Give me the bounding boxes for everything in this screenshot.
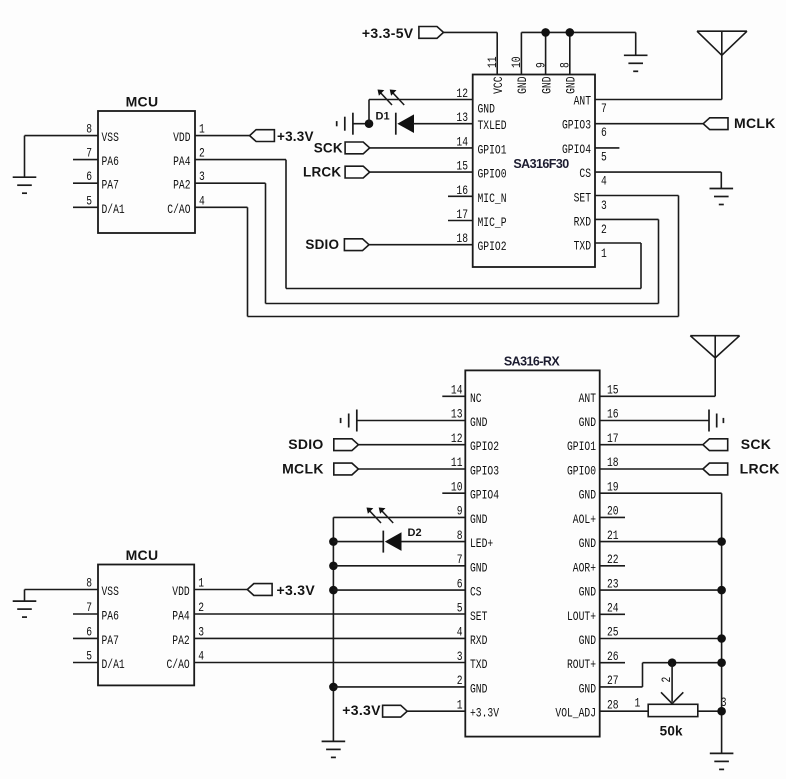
U1 pin 5 D/A1 xyxy=(86,193,125,217)
wire U2 GPIO3 pin 6 to MCLK xyxy=(595,123,703,125)
ground at U2 CS xyxy=(710,189,734,205)
svg-text:SDIO: SDIO xyxy=(288,436,323,452)
U4 pin 8 LED+ xyxy=(457,528,494,551)
svg-text:GPIO1: GPIO1 xyxy=(567,439,596,454)
svg-text:GPIO3: GPIO3 xyxy=(562,118,591,133)
svg-text:CS: CS xyxy=(579,166,591,181)
net label LRCK (bottom) xyxy=(703,461,780,477)
svg-text:SCK: SCK xyxy=(314,140,343,155)
junction left bus at CS pin 6 xyxy=(329,586,338,595)
U4 pin 2 GND xyxy=(457,673,488,696)
U4 pin 25 GND xyxy=(579,625,619,648)
U2 pin 5 GPIO4 xyxy=(562,142,607,165)
U4 pin 28 VOL_ADJ xyxy=(555,697,618,720)
svg-text:NC: NC xyxy=(470,391,482,406)
svg-text:AOL+: AOL+ xyxy=(573,512,596,527)
svg-text:GND: GND xyxy=(579,536,597,551)
svg-text:PA6: PA6 xyxy=(102,154,119,169)
antenna E2 xyxy=(690,336,739,358)
U1 pin 4 C/AO xyxy=(167,193,205,217)
U1 pin 5 stub wire xyxy=(73,206,98,208)
net label SDIO (top) xyxy=(305,237,369,252)
U4 pin 15 ANT xyxy=(579,383,619,406)
svg-text:27: 27 xyxy=(607,673,619,688)
junction on GND bus at pin 8 xyxy=(566,28,575,37)
wire U4 GPIO1 pin 17 to SCK xyxy=(600,444,703,446)
svg-text:7: 7 xyxy=(86,600,92,615)
U2 pin 14 GPIO1 xyxy=(456,134,506,157)
svg-text:6: 6 xyxy=(601,125,607,140)
ground at U3 VSS xyxy=(13,601,37,617)
svg-text:3: 3 xyxy=(601,198,607,213)
wire U3 PA2 to U4 RXD pin 4 xyxy=(194,637,465,639)
svg-text:+3.3V: +3.3V xyxy=(277,582,316,598)
U3 pin 8 VSS xyxy=(86,576,119,600)
U4 pin 18 GPIO0 xyxy=(567,455,619,478)
U2 pin 18 GPIO2 xyxy=(456,231,506,254)
junction left bus at GND pin 7 xyxy=(329,562,338,571)
U2 pin 2 RXD xyxy=(574,215,607,238)
U4 pin 21 GND xyxy=(579,528,619,551)
wire potentiometer pin 3 to right bus xyxy=(698,710,722,712)
LED D2 xyxy=(367,508,422,553)
svg-text:28: 28 xyxy=(607,697,619,712)
svg-text:LRCK: LRCK xyxy=(740,461,780,477)
svg-text:12: 12 xyxy=(451,431,463,446)
svg-text:GND: GND xyxy=(564,76,579,94)
svg-text:16: 16 xyxy=(607,407,619,422)
svg-text:LOUT+: LOUT+ xyxy=(567,609,596,624)
svg-text:24: 24 xyxy=(607,601,619,616)
svg-text:GND: GND xyxy=(470,560,488,575)
U2 MIC_P pin 17 stub wire xyxy=(448,220,473,222)
svg-text:SET: SET xyxy=(574,190,592,205)
svg-text:MCU: MCU xyxy=(126,94,159,110)
wire junction up to U2 GND pin 12 xyxy=(369,100,473,124)
power flag +3.3V at U1 VDD xyxy=(250,129,314,144)
wire U1 VDD to +3.3V flag xyxy=(195,135,250,137)
svg-text:13: 13 xyxy=(451,407,463,422)
U1 pin 1 VDD xyxy=(173,122,205,146)
wire U4 GND pin 21 to right bus xyxy=(600,541,722,543)
svg-text:7: 7 xyxy=(601,101,607,116)
svg-text:1: 1 xyxy=(601,246,607,261)
svg-text:GND: GND xyxy=(515,76,530,94)
wire U4 GND pin 27 to wiper node and right bus xyxy=(600,663,722,687)
U2 pin 4 CS xyxy=(579,166,607,189)
svg-text:8: 8 xyxy=(86,122,92,137)
ground at bottom of left GND bus xyxy=(322,741,346,757)
svg-text:SET: SET xyxy=(470,609,488,624)
svg-text:19: 19 xyxy=(607,479,619,494)
svg-text:8: 8 xyxy=(457,528,463,543)
svg-text:7: 7 xyxy=(457,552,463,567)
U4 pin 14 NC xyxy=(451,383,482,406)
svg-text:50k: 50k xyxy=(660,724,683,739)
U2 pin 13 TXLED xyxy=(456,110,506,133)
wire antenna to U4 ANT pin 15 xyxy=(600,358,716,396)
U1 pin 3 PA2 xyxy=(173,169,205,193)
U2 pin 3 SET xyxy=(574,190,607,213)
U2 MIC_N pin 16 stub wire xyxy=(448,195,473,197)
U1 pin 8 VSS xyxy=(86,122,119,146)
svg-text:D1: D1 xyxy=(376,111,390,123)
junction at potentiometer wiper xyxy=(668,658,677,667)
svg-text:PA7: PA7 xyxy=(102,633,119,648)
wire antenna to U2 ANT pin 7 xyxy=(595,55,722,99)
U2 pin 15 GPIO0 xyxy=(456,159,506,182)
svg-text:ANT: ANT xyxy=(574,94,592,109)
svg-text:5: 5 xyxy=(601,149,607,164)
wire U1 PA4 to U2 TXD xyxy=(195,160,641,289)
junction right bus at GND pin 21 xyxy=(717,537,726,546)
svg-text:+3.3V: +3.3V xyxy=(277,129,314,144)
svg-text:4: 4 xyxy=(601,174,607,189)
U4 pin 22 AOR+ xyxy=(573,552,619,575)
svg-text:18: 18 xyxy=(607,455,619,470)
U3 pin 7 PA6 xyxy=(86,600,119,624)
U4 GPIO4 pin 10 stub wire xyxy=(442,492,465,494)
svg-text:14: 14 xyxy=(451,383,463,398)
U4 pin 20 AOL+ xyxy=(573,504,619,527)
svg-text:4: 4 xyxy=(199,193,205,208)
U3 pin 4 C/AO xyxy=(167,649,205,673)
potentiometer RP1 50k xyxy=(635,663,727,739)
wire U4 GND pin 23 to right bus xyxy=(600,589,722,591)
LED D1 xyxy=(376,90,415,135)
power flag +3.3-5V xyxy=(362,25,444,41)
wire U2 CS pin 4 to ground xyxy=(595,172,721,188)
svg-text:5: 5 xyxy=(86,649,92,664)
junction on GND bus at pin 9 xyxy=(541,28,550,37)
net label MCLK (top) xyxy=(703,115,775,131)
U2 top pin 10 GND xyxy=(509,32,530,94)
svg-text:VSS: VSS xyxy=(102,130,120,145)
U4 pin 26 ROUT+ xyxy=(567,649,619,672)
svg-text:C/AO: C/AO xyxy=(167,202,190,217)
svg-text:GPIO1: GPIO1 xyxy=(478,142,507,157)
svg-text:SA316-RX: SA316-RX xyxy=(504,355,561,369)
svg-text:GND: GND xyxy=(579,488,597,503)
svg-text:GND: GND xyxy=(478,102,496,117)
wire D1 anode to U2 TXLED pin 13 xyxy=(413,123,473,125)
net label SDIO (bottom) xyxy=(288,436,358,452)
svg-text:SA316F30: SA316F30 xyxy=(513,157,569,171)
wire +3.3V flag to U4 pin 1 xyxy=(407,710,465,712)
svg-text:SDIO: SDIO xyxy=(305,237,339,252)
svg-text:GPIO0: GPIO0 xyxy=(567,464,596,479)
U4 AOL+ pin 20 stub wire xyxy=(600,516,625,518)
wire left bus to U4 CS pin 6 xyxy=(333,589,465,591)
ground at U1 VSS xyxy=(13,177,37,193)
svg-text:MCLK: MCLK xyxy=(282,461,324,477)
net label MCLK (bottom) xyxy=(282,461,358,477)
net label SCK (bottom) xyxy=(703,436,771,452)
junction right bus at potentiometer pin 3 xyxy=(717,707,726,716)
svg-text:3: 3 xyxy=(198,624,204,639)
SA316-RX U4 box xyxy=(465,355,599,737)
wire U4 GND pin 16 to ground xyxy=(600,420,709,422)
svg-text:D2: D2 xyxy=(408,527,422,539)
svg-text:22: 22 xyxy=(607,552,619,567)
U1 pin 7 stub wire xyxy=(73,159,98,161)
wire U3 VDD to +3.3V flag xyxy=(194,589,247,591)
svg-text:11: 11 xyxy=(451,455,463,470)
wire U3 PA4 to U4 SET pin 5 xyxy=(194,613,465,615)
U4 pin 6 CS xyxy=(457,576,482,599)
svg-text:MCU: MCU xyxy=(126,547,159,563)
svg-text:VSS: VSS xyxy=(102,584,120,599)
svg-text:GPIO4: GPIO4 xyxy=(470,488,499,503)
svg-text:AOR+: AOR+ xyxy=(573,560,596,575)
svg-text:SCK: SCK xyxy=(741,436,771,452)
U1 pin 7 PA6 xyxy=(86,146,119,170)
U3 pin 3 PA2 xyxy=(172,624,204,648)
wire +3.3-5V flag to U2 VCC pin 11 xyxy=(444,31,498,33)
U4 pin 19 GND xyxy=(579,479,619,502)
wire U1 C/AO to U2 SET xyxy=(195,196,679,317)
wire U4 GND pin 9 and left GND bus xyxy=(333,517,465,741)
svg-text:4: 4 xyxy=(457,625,463,640)
wire U4 GND pin 19 and right GND bus xyxy=(600,493,722,753)
MCU U1 box xyxy=(98,94,195,234)
U4 pin 16 GND xyxy=(579,407,619,430)
svg-text:5: 5 xyxy=(86,193,92,208)
U3 pin 2 PA4 xyxy=(172,600,204,624)
svg-text:+3.3V: +3.3V xyxy=(470,706,499,721)
svg-text:TXD: TXD xyxy=(470,657,488,672)
wire U3 VSS to ground xyxy=(25,590,99,602)
U4 pin 17 GPIO1 xyxy=(567,431,619,454)
ground at bottom of right GND bus xyxy=(710,753,734,769)
wire left bus to U4 GND pin 7 xyxy=(333,565,465,567)
svg-text:7: 7 xyxy=(86,146,92,161)
svg-text:9: 9 xyxy=(457,504,463,519)
svg-text:PA4: PA4 xyxy=(173,154,191,169)
U3 pin 6 PA7 xyxy=(86,624,119,648)
U4 LOUT+ pin 24 stub wire xyxy=(600,613,625,615)
svg-text:CS: CS xyxy=(470,585,482,600)
svg-text:6: 6 xyxy=(457,576,463,591)
U4 pin 9 GND xyxy=(457,504,488,527)
U4 pin 27 GND xyxy=(579,673,619,696)
net label LRCK (top) xyxy=(303,164,370,179)
svg-text:RXD: RXD xyxy=(574,215,592,230)
svg-text:17: 17 xyxy=(607,431,619,446)
wire top GND bus pins 10 9 8 xyxy=(521,32,635,55)
junction right bus at GND pin 25 xyxy=(717,634,726,643)
svg-text:VDD: VDD xyxy=(172,584,190,599)
svg-text:D/A1: D/A1 xyxy=(102,657,125,672)
svg-text:GPIO2: GPIO2 xyxy=(470,439,499,454)
svg-text:10: 10 xyxy=(451,479,463,494)
power flag +3.3V at U3 VDD xyxy=(247,582,315,598)
svg-text:25: 25 xyxy=(607,625,619,640)
svg-text:TXLED: TXLED xyxy=(478,118,507,133)
svg-text:GND: GND xyxy=(470,681,488,696)
svg-text:3: 3 xyxy=(457,649,463,664)
U4 pin 11 GPIO3 xyxy=(451,455,499,478)
U2 pin 6 GPIO3 xyxy=(562,118,607,141)
U3 pin 7 stub wire xyxy=(73,613,98,615)
U4 pin 7 GND xyxy=(457,552,488,575)
svg-text:21: 21 xyxy=(607,528,619,543)
svg-text:PA7: PA7 xyxy=(102,178,119,193)
wire U4 GPIO0 pin 18 to LRCK xyxy=(600,468,703,470)
wire ground to U4 GND pin 13 xyxy=(357,420,466,422)
wire SCK to U2 GPIO1 pin 14 xyxy=(370,147,473,149)
junction left bus at GND pin 2 xyxy=(329,683,338,692)
U1 pin 2 PA4 xyxy=(173,146,205,170)
U4 pin 24 LOUT+ xyxy=(567,601,619,624)
svg-text:LRCK: LRCK xyxy=(303,164,341,179)
wire SDIO to U2 GPIO2 pin 18 xyxy=(369,244,473,246)
svg-text:TXD: TXD xyxy=(574,239,592,254)
U3 pin 6 stub wire xyxy=(73,637,98,639)
wire D2 anode to U4 LED+ pin 8 xyxy=(402,541,466,543)
SA316F30 U2 box xyxy=(473,75,595,268)
svg-text:VOL_ADJ: VOL_ADJ xyxy=(555,706,596,721)
U3 pin 5 D/A1 xyxy=(86,649,125,673)
svg-text:GND: GND xyxy=(579,681,597,696)
svg-text:3: 3 xyxy=(199,169,205,184)
U2 pin 16 MIC_N xyxy=(456,183,506,206)
U4 pin 10 GPIO4 xyxy=(451,479,499,502)
U2 pin 1 TXD xyxy=(574,239,607,262)
U2 pin 17 MIC_P xyxy=(456,207,506,230)
svg-text:MCLK: MCLK xyxy=(734,115,776,131)
U1 pin 6 PA7 xyxy=(86,169,119,193)
wire SDIO to U4 GPIO2 pin 12 xyxy=(358,444,465,446)
svg-text:8: 8 xyxy=(86,576,92,591)
wire U1 VSS to ground xyxy=(25,136,99,178)
U1 pin 6 stub wire xyxy=(73,182,98,184)
svg-text:2: 2 xyxy=(199,146,205,161)
net label SCK (top) xyxy=(314,140,370,155)
U4 pin 5 SET xyxy=(457,601,488,624)
svg-text:RXD: RXD xyxy=(470,633,488,648)
wire left bus to LED D2 cathode xyxy=(333,541,383,543)
svg-text:MIC_P: MIC_P xyxy=(478,215,507,230)
svg-text:PA4: PA4 xyxy=(172,609,190,624)
U3 pin 1 VDD xyxy=(172,576,204,600)
wire LRCK to U2 GPIO0 pin 15 xyxy=(370,171,473,173)
svg-text:GND: GND xyxy=(579,415,597,430)
ground at LED D1 cathode xyxy=(337,113,353,135)
svg-text:2: 2 xyxy=(198,600,204,615)
svg-text:GND: GND xyxy=(470,512,488,527)
svg-text:ANT: ANT xyxy=(579,391,597,406)
svg-text:6: 6 xyxy=(86,169,92,184)
U2 pin 7 ANT xyxy=(574,94,607,117)
svg-text:C/AO: C/AO xyxy=(167,657,190,672)
U3 pin 5 stub wire xyxy=(73,662,98,664)
svg-text:4: 4 xyxy=(198,649,204,664)
svg-text:GPIO0: GPIO0 xyxy=(478,167,507,182)
ground at U4 GND pin 13 xyxy=(341,410,357,432)
svg-text:2: 2 xyxy=(457,673,463,688)
U4 pin 4 RXD xyxy=(457,625,488,648)
svg-text:+3.3-5V: +3.3-5V xyxy=(362,25,414,41)
svg-text:PA6: PA6 xyxy=(102,609,119,624)
svg-text:15: 15 xyxy=(607,383,619,398)
svg-text:1: 1 xyxy=(635,696,641,711)
svg-text:26: 26 xyxy=(607,649,619,664)
svg-text:6: 6 xyxy=(86,624,92,639)
U4 ROUT+ pin 26 stub wire xyxy=(600,662,625,664)
wire U4 VOL_ADJ pin 28 to potentiometer pin 1 xyxy=(600,710,649,712)
U4 pin 12 GPIO2 xyxy=(451,431,499,454)
wire MCLK to U4 GPIO3 pin 11 xyxy=(358,468,465,470)
U4 NC pin 14 stub wire xyxy=(442,395,465,397)
wire U3 C/AO to U4 TXD pin 3 xyxy=(194,662,465,664)
junction right bus at GND pin 23 xyxy=(717,586,726,595)
svg-text:PA2: PA2 xyxy=(172,633,189,648)
wire left bus to U4 GND pin 2 xyxy=(333,686,465,688)
svg-text:GND: GND xyxy=(470,415,488,430)
MCU U3 box xyxy=(98,547,194,685)
antenna E1 xyxy=(697,31,747,55)
svg-text:VCC: VCC xyxy=(491,76,506,94)
U4 pin 3 TXD xyxy=(457,649,488,672)
svg-text:PA2: PA2 xyxy=(173,178,190,193)
svg-text:ROUT+: ROUT+ xyxy=(567,657,596,672)
svg-text:GPIO4: GPIO4 xyxy=(562,142,591,157)
U2 top pin 11 VCC xyxy=(485,32,506,94)
svg-text:GND: GND xyxy=(579,633,597,648)
svg-text:1: 1 xyxy=(457,697,463,712)
U2 top pin 9 GND xyxy=(533,32,554,94)
svg-text:+3.3V: +3.3V xyxy=(342,702,381,718)
wire U4 GND pin 25 to right bus xyxy=(600,638,722,640)
svg-text:GND: GND xyxy=(579,585,597,600)
wire U1 PA2 to U2 RXD xyxy=(195,183,659,303)
junction node at D1 cathode xyxy=(365,119,374,128)
wire D1 ground to junction xyxy=(353,123,369,125)
svg-text:GPIO2: GPIO2 xyxy=(478,239,507,254)
svg-text:2: 2 xyxy=(659,677,674,683)
svg-text:VDD: VDD xyxy=(173,130,191,145)
junction right bus at wiper row xyxy=(717,658,726,667)
U4 AOR+ pin 22 stub wire xyxy=(600,565,625,567)
svg-text:GND: GND xyxy=(539,76,554,94)
svg-text:1: 1 xyxy=(198,576,204,591)
U4 pin 1 +3.3V xyxy=(457,697,499,720)
power flag +3.3V at U4 pin 1 xyxy=(342,702,407,718)
svg-text:LED+: LED+ xyxy=(470,536,493,551)
ground at U4 GND pin 16 xyxy=(709,410,723,432)
U2 pin 12 GND xyxy=(456,86,495,117)
svg-text:23: 23 xyxy=(607,576,619,591)
svg-text:1: 1 xyxy=(199,122,205,137)
U4 pin 23 GND xyxy=(579,576,619,599)
svg-text:2: 2 xyxy=(601,222,607,237)
U4 pin 13 GND xyxy=(451,407,488,430)
junction left bus at LED+ row xyxy=(329,537,338,546)
svg-text:20: 20 xyxy=(607,504,619,519)
U2 top pin 8 GND xyxy=(558,32,579,94)
ground at top GND bus xyxy=(624,55,648,71)
svg-text:D/A1: D/A1 xyxy=(102,202,125,217)
U2 GPIO4 pin 5 stub wire xyxy=(595,147,619,149)
svg-text:GPIO3: GPIO3 xyxy=(470,464,499,479)
svg-text:MIC_N: MIC_N xyxy=(478,191,507,206)
